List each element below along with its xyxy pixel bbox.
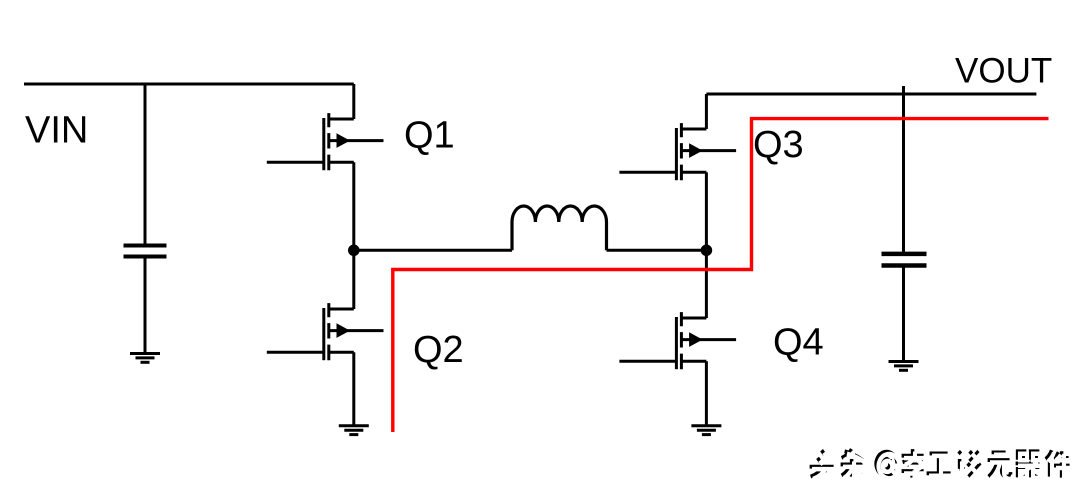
wire: input capacitor to ground [144, 258, 147, 354]
transistor Q4 [619, 312, 736, 369]
wire: VOUT rail down to output capacitor (with tick above rail) [902, 86, 905, 252]
wire: node A to inductor [354, 249, 512, 252]
svg-text:Q1: Q1 [404, 115, 455, 157]
transistor Q1 [267, 113, 384, 170]
ground (Q2 source) [339, 426, 369, 435]
svg-text:VOUT: VOUT [955, 52, 1052, 91]
svg-text:VIN: VIN [25, 109, 88, 151]
wire: node B down to Q4 drain [705, 250, 708, 318]
node B (right switch node junction) [701, 245, 713, 257]
svg-text:Q2: Q2 [413, 329, 464, 371]
wire: Q1 drain up to VIN rail [352, 84, 355, 119]
wire: Q3 source down to node B [705, 172, 708, 250]
wire: Q1 source down to node A [352, 162, 355, 250]
ground (Q4 source) [691, 426, 721, 435]
wire: Q2 source down to ground [352, 352, 355, 426]
inductor L1 [512, 206, 607, 250]
wire: output capacitor to ground [902, 268, 905, 362]
wire: VOUT top rail [706, 93, 1036, 96]
ground (output capacitor) [889, 362, 919, 371]
transistor Q2 [267, 303, 384, 360]
wire: Q4 source down to ground [705, 361, 708, 426]
wire: VIN rail down to input capacitor [144, 84, 147, 245]
wire: node A down to Q2 drain [352, 250, 355, 309]
wire: VIN top rail [24, 83, 354, 86]
wire: Q3 drain up to VOUT rail [705, 94, 708, 129]
node A (left switch node junction) [348, 245, 360, 257]
svg-text:Q3: Q3 [753, 124, 804, 166]
wire: inductor to node B [607, 249, 707, 252]
transistor Q3 [619, 123, 736, 180]
watermark: 头条 @李工谈元器件 [810, 449, 1072, 480]
capacitor C2 (output) [882, 254, 927, 266]
svg-text:Q4: Q4 [773, 322, 824, 364]
capacitor C1 (input) [124, 246, 167, 257]
ground (input capacitor) [130, 354, 160, 363]
current flow highlight path (red) [393, 119, 1049, 432]
